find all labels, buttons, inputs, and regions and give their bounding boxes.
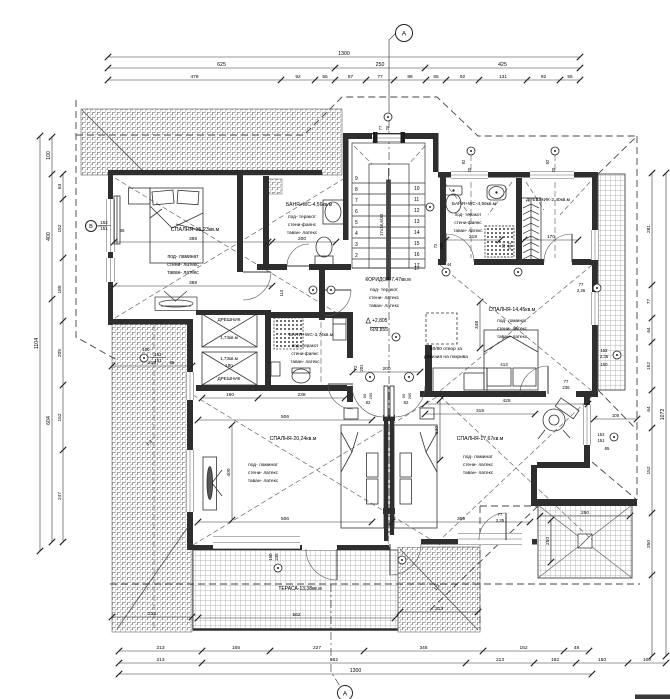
- svg-text:478: 478: [190, 74, 198, 80]
- bed bedroom 15,23: [114, 188, 203, 263]
- svg-text:152: 152: [155, 352, 163, 357]
- svg-text:77: 77: [377, 74, 383, 80]
- svg-text:180: 180: [225, 363, 233, 368]
- svg-text:1300: 1300: [350, 668, 362, 674]
- interior dimensions: [114, 241, 272, 243]
- svg-text:БАНЯ+WC-4,56кв.м: БАНЯ+WC-4,56кв.м: [286, 202, 333, 208]
- svg-text:205: 205: [57, 349, 63, 357]
- svg-text:180: 180: [226, 392, 234, 398]
- svg-text:152: 152: [57, 224, 63, 232]
- svg-text:стени- латекс: стени- латекс: [167, 262, 199, 268]
- svg-text:15: 15: [414, 241, 420, 247]
- svg-text:150: 150: [598, 657, 606, 663]
- svg-text:стени- латекс: стени- латекс: [497, 327, 528, 332]
- svg-text:63: 63: [57, 184, 63, 190]
- svg-text:92: 92: [541, 74, 547, 80]
- svg-text:92: 92: [545, 159, 550, 164]
- svg-text:227: 227: [313, 645, 321, 651]
- svg-text:77: 77: [498, 512, 503, 517]
- svg-text:213: 213: [156, 645, 164, 651]
- svg-text:213: 213: [496, 657, 504, 663]
- fixtures top-right bathroom: [445, 185, 506, 213]
- svg-text:3: 3: [355, 242, 358, 248]
- svg-text:6: 6: [355, 209, 358, 215]
- svg-text:ревизия на покрива: ревизия на покрива: [424, 355, 468, 360]
- svg-text:92: 92: [460, 74, 466, 80]
- svg-text:17: 17: [414, 266, 420, 272]
- svg-text:2,36: 2,36: [600, 354, 609, 359]
- svg-text:152: 152: [646, 362, 652, 370]
- svg-text:150: 150: [268, 553, 273, 561]
- svg-text:201: 201: [507, 242, 512, 250]
- axis circle A bottom: [338, 686, 353, 699]
- svg-text:77: 77: [646, 299, 652, 305]
- svg-text:20: 20: [385, 125, 390, 130]
- svg-text:48: 48: [574, 645, 580, 651]
- dashed ceiling diagonals in rooms: [115, 146, 592, 545]
- outer and inner walls: [108, 133, 637, 550]
- svg-text:64: 64: [646, 406, 652, 412]
- svg-text:под- ламинат: под- ламинат: [463, 455, 494, 460]
- axis line bottom: [331, 584, 340, 686]
- svg-text:7: 7: [355, 198, 358, 204]
- svg-text:236: 236: [562, 385, 570, 390]
- svg-text:77: 77: [378, 125, 383, 130]
- svg-text:14: 14: [414, 230, 420, 236]
- svg-text:506: 506: [281, 414, 289, 420]
- staircase: [352, 143, 425, 280]
- svg-text:151: 151: [100, 226, 108, 231]
- right tile grid column: [598, 174, 625, 390]
- shower top-right: [485, 226, 514, 257]
- door opening gaps: [237, 258, 576, 550]
- svg-text:72: 72: [501, 243, 506, 248]
- svg-text:55: 55: [433, 74, 439, 80]
- axis line A top: [389, 33, 396, 547]
- svg-text:100: 100: [46, 151, 52, 160]
- svg-text:под- теракот: под- теракот: [288, 215, 317, 220]
- svg-text:20: 20: [467, 167, 472, 172]
- svg-text:201: 201: [439, 242, 444, 250]
- top dimension chains: [108, 56, 580, 58]
- svg-text:1,73кв.м: 1,73кв.м: [220, 356, 238, 361]
- svg-text:ДРЕШНИК: ДРЕШНИК: [218, 376, 241, 381]
- svg-text:250: 250: [376, 62, 385, 68]
- svg-text:A: A: [402, 30, 407, 37]
- svg-text:ТЕРАСА-13,38кв.м: ТЕРАСА-13,38кв.м: [278, 586, 322, 592]
- windows: [106, 199, 115, 252]
- svg-text:185: 185: [57, 285, 63, 293]
- svg-text:1300: 1300: [338, 51, 350, 57]
- svg-text:90: 90: [401, 393, 406, 398]
- svg-text:55: 55: [567, 74, 573, 80]
- svg-text:СПАЛНЯ-15,23кв.м: СПАЛНЯ-15,23кв.м: [171, 227, 220, 233]
- axis circle B left: [86, 221, 97, 232]
- svg-text:604: 604: [46, 416, 52, 425]
- svg-text:72: 72: [433, 243, 438, 248]
- svg-text:152: 152: [100, 220, 108, 225]
- svg-text:17x16,6/30: 17x16,6/30: [379, 213, 384, 236]
- doors: [243, 271, 271, 273]
- svg-text:ДРЕШНИК-2,40кв.м: ДРЕШНИК-2,40кв.м: [526, 197, 570, 203]
- armchair bedroom 17: [538, 398, 579, 439]
- svg-text:стени- латекс: стени- латекс: [248, 471, 279, 476]
- svg-text:625: 625: [217, 62, 226, 68]
- svg-text:100: 100: [612, 413, 620, 418]
- svg-text:200: 200: [382, 366, 390, 372]
- left dimension chains: [39, 136, 41, 551]
- svg-text:100: 100: [600, 362, 608, 367]
- svg-text:425: 425: [498, 62, 507, 68]
- roof hatch top band: [81, 109, 342, 175]
- right dimension chains: [665, 173, 667, 656]
- svg-text:стени-фаянс: стени-фаянс: [288, 222, 317, 228]
- svg-text:425: 425: [502, 398, 510, 404]
- svg-text:165: 165: [232, 645, 240, 651]
- svg-text:ДРЕШНИК: ДРЕШНИК: [218, 317, 241, 322]
- svg-text:B: B: [89, 224, 93, 230]
- svg-text:1,73кв.м: 1,73кв.м: [220, 335, 238, 340]
- svg-text:152: 152: [600, 348, 608, 353]
- svg-text:82: 82: [366, 400, 371, 405]
- svg-text:151: 151: [597, 438, 605, 443]
- svg-text:413: 413: [500, 362, 508, 367]
- svg-text:250: 250: [581, 510, 589, 516]
- svg-text:таван- латекс: таван- латекс: [287, 231, 318, 236]
- svg-text:281: 281: [646, 225, 652, 233]
- svg-text:100: 100: [643, 657, 651, 663]
- svg-text:90: 90: [362, 393, 367, 398]
- svg-text:таван- латекс: таван- латекс: [454, 228, 484, 233]
- svg-text:170: 170: [547, 234, 555, 240]
- svg-text:152: 152: [519, 645, 527, 651]
- svg-text:400: 400: [46, 232, 52, 241]
- roof hatch right of terrace: [398, 547, 480, 632]
- svg-text:2,35: 2,35: [496, 518, 505, 523]
- svg-text:таван- латекс: таван- латекс: [291, 359, 321, 364]
- svg-text:388: 388: [189, 236, 197, 242]
- axis circle A top: [396, 25, 413, 42]
- axis B left: [97, 225, 113, 227]
- svg-text:92: 92: [295, 74, 301, 80]
- svg-text:345: 345: [419, 645, 427, 651]
- svg-text:213: 213: [435, 606, 443, 612]
- roof hatch left band: [112, 322, 192, 632]
- svg-text:1104: 1104: [34, 338, 40, 349]
- svg-text:55: 55: [322, 74, 328, 80]
- svg-text:236: 236: [274, 553, 279, 561]
- svg-text:348: 348: [474, 321, 480, 329]
- svg-text:стени-фаянс: стени-фаянс: [291, 351, 319, 356]
- svg-text:319: 319: [476, 408, 484, 414]
- svg-text:под- ламинат: под- ламинат: [248, 463, 279, 468]
- small axis verticals top right: [154, 155, 555, 629]
- bed bedroom 14,45: [484, 330, 538, 390]
- svg-text:стени- латекс: стени- латекс: [369, 296, 400, 301]
- svg-text:205: 205: [368, 392, 373, 399]
- svg-text:77: 77: [564, 379, 569, 384]
- svg-text:110: 110: [279, 289, 284, 296]
- svg-text:131: 131: [499, 74, 507, 80]
- svg-text:80/80 отвор за: 80/80 отвор за: [430, 346, 462, 352]
- svg-text:151: 151: [155, 358, 163, 363]
- closet top-right hanger: [521, 198, 541, 262]
- svg-text:2: 2: [355, 253, 358, 259]
- dresser bedroom 20: [203, 457, 222, 510]
- fixtures top-left bathroom: [315, 200, 345, 265]
- svg-text:БАНЯ+WC-4,56кв.м: БАНЯ+WC-4,56кв.м: [452, 201, 496, 207]
- svg-text:СПАЛНЯ-20,24кв.м: СПАЛНЯ-20,24кв.м: [270, 436, 317, 442]
- svg-text:152: 152: [646, 466, 652, 474]
- svg-text:77: 77: [579, 282, 584, 287]
- svg-text:СПАЛНЯ-14,45кв.м: СПАЛНЯ-14,45кв.м: [489, 307, 536, 313]
- svg-text:218: 218: [469, 234, 477, 240]
- svg-text:85: 85: [119, 228, 125, 233]
- svg-text:под- теракот: под- теракот: [292, 343, 320, 348]
- svg-text:стени- латекс: стени- латекс: [463, 463, 494, 468]
- svg-text:СПАЛНЯ-17,67кв.м: СПАЛНЯ-17,67кв.м: [457, 436, 504, 442]
- svg-text:562: 562: [292, 612, 300, 618]
- svg-text:под- теракот: под- теракот: [455, 212, 483, 217]
- svg-text:8: 8: [355, 187, 358, 193]
- beds bottom center: [341, 408, 437, 528]
- terrace tile grid: [193, 550, 398, 630]
- svg-text:152: 152: [597, 432, 605, 437]
- svg-text:таван- латекс: таван- латекс: [463, 471, 494, 476]
- roof revision opening 80/80: [426, 313, 487, 393]
- door label symbols: [442, 268, 450, 276]
- svg-text:20: 20: [551, 167, 556, 172]
- svg-text:247: 247: [57, 492, 63, 500]
- svg-text:162: 162: [551, 657, 559, 663]
- closet X boxes: [202, 314, 257, 385]
- svg-text:100: 100: [142, 347, 150, 352]
- svg-text:под- ламинат: под- ламинат: [497, 319, 528, 324]
- svg-text:238: 238: [297, 392, 305, 398]
- svg-text:таван- латекс: таван- латекс: [167, 270, 199, 276]
- svg-text:85: 85: [605, 446, 610, 451]
- svg-text:13: 13: [414, 219, 420, 225]
- svg-text:369: 369: [457, 516, 465, 522]
- bottom dimension chains: [119, 650, 589, 652]
- duct hatch near top-left bath: [264, 179, 282, 194]
- fixtures mid bathroom: [274, 318, 303, 349]
- svg-text:562: 562: [330, 657, 338, 663]
- svg-text:213: 213: [156, 657, 164, 663]
- svg-text:82: 82: [404, 400, 409, 405]
- svg-text:250: 250: [545, 537, 551, 545]
- svg-text:230: 230: [434, 426, 440, 434]
- svg-text:44: 44: [447, 262, 452, 267]
- svg-text:205: 205: [407, 392, 412, 399]
- svg-text:4: 4: [355, 231, 358, 237]
- svg-text:152: 152: [57, 413, 63, 421]
- title block sliver bottom-right: [635, 695, 670, 699]
- svg-text:400: 400: [226, 468, 232, 476]
- svg-text:213: 213: [148, 611, 156, 617]
- svg-text:1072: 1072: [660, 409, 666, 421]
- svg-text:БАНЯ+WC-3,74кв.м: БАНЯ+WC-3,74кв.м: [289, 332, 333, 338]
- svg-text:388: 388: [189, 280, 197, 286]
- svg-text:таван- латекс: таван- латекс: [369, 304, 400, 309]
- svg-text:10: 10: [414, 186, 420, 192]
- svg-text:5: 5: [355, 220, 358, 226]
- svg-text:таван- латекс: таван- латекс: [497, 335, 528, 340]
- svg-text:таван- латекс: таван- латекс: [248, 479, 279, 484]
- svg-text:под- ламинат: под- ламинат: [167, 254, 199, 260]
- svg-text:609,855: 609,855: [370, 327, 388, 333]
- svg-text:250: 250: [646, 540, 652, 548]
- small axis circles: [467, 147, 475, 155]
- svg-text:под- теракот: под- теракот: [370, 288, 399, 293]
- svg-text:КОРИДОР-7,47кв.м: КОРИДОР-7,47кв.м: [365, 277, 411, 283]
- svg-text:64: 64: [646, 327, 652, 333]
- svg-text:стени-фаянс: стени-фаянс: [454, 220, 482, 225]
- svg-text:11: 11: [414, 197, 419, 203]
- svg-text:200: 200: [298, 236, 306, 242]
- svg-text:A: A: [343, 690, 348, 697]
- dashed roof eave lines: [76, 97, 640, 630]
- svg-text:506: 506: [281, 516, 289, 522]
- bottom-right tile grid block: [538, 505, 632, 578]
- svg-text:+2,805: +2,805: [372, 318, 388, 324]
- axis marker on lower-left wall: [140, 354, 148, 362]
- svg-text:2,36: 2,36: [577, 288, 586, 293]
- svg-text:86: 86: [407, 74, 413, 80]
- svg-text:9: 9: [355, 176, 358, 182]
- svg-text:12: 12: [414, 208, 420, 214]
- svg-text:201: 201: [359, 364, 364, 372]
- bench bedroom 15: [155, 291, 197, 311]
- svg-text:92: 92: [461, 159, 466, 164]
- svg-text:16: 16: [414, 252, 420, 258]
- svg-text:85: 85: [170, 360, 175, 365]
- svg-text:87: 87: [348, 74, 354, 80]
- svg-text:72: 72: [353, 365, 358, 370]
